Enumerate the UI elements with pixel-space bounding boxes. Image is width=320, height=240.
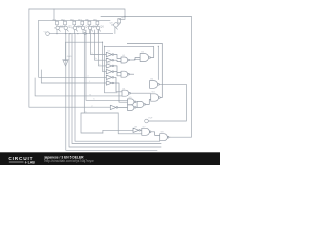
wire stub x54	[53, 9, 55, 20]
logo bolt icon	[25, 161, 27, 164]
wire feedback f5	[105, 46, 118, 93]
wire bus v0	[66, 34, 157, 151]
inverter U7	[110, 105, 116, 109]
wire p4 out	[146, 100, 151, 105]
wire q1q2 cross	[55, 25, 66, 34]
wire left fourth vertical	[41, 70, 106, 83]
wire p1 out	[131, 92, 151, 94]
wire gate1 to gate2	[134, 58, 140, 60]
nand gate G1	[121, 57, 128, 63]
transistor arrow ticks	[59, 28, 118, 32]
wire g6 out feedback	[105, 46, 154, 57]
wire left second vertical	[35, 78, 122, 96]
svg-text:Q4: Q4	[85, 25, 89, 29]
CircuitLab logo LAB row	[9, 162, 24, 163]
nand gate P1	[122, 90, 129, 96]
inverter U2	[106, 58, 112, 62]
resistor R4	[81, 21, 84, 25]
svg-text:R2: R2	[61, 18, 65, 22]
transistor Q1	[56, 26, 59, 29]
inverter U1	[106, 52, 112, 56]
svg-text:Q5: Q5	[92, 25, 96, 29]
resistor R7	[118, 19, 121, 23]
inverter U4	[106, 69, 112, 73]
inverter U5	[106, 75, 112, 79]
resistor R6	[96, 21, 99, 25]
wire collector rail	[39, 19, 110, 21]
wire input line	[49, 33, 112, 35]
component labels (tiny)	[44, 18, 165, 134]
svg-text:GND: GND	[67, 56, 72, 58]
nand gate B2	[151, 94, 159, 101]
wire feedback f2	[95, 30, 107, 60]
svg-text:R4: R4	[78, 18, 82, 22]
node OUT port	[145, 119, 149, 123]
svg-text:http://circuitlab.com/c/fys74k: http://circuitlab.com/c/fys74kj7rcyw	[45, 159, 95, 163]
nand gate A9 bottom	[142, 128, 150, 135]
transistor Q2	[64, 26, 67, 29]
nand gate G2	[121, 71, 128, 77]
wire q5q6 cross	[89, 25, 98, 34]
wire r7 top	[119, 17, 125, 20]
inverter U3	[106, 64, 112, 68]
nand gate P4	[137, 101, 144, 107]
transistor Q7	[114, 23, 118, 27]
inverter U6	[106, 81, 112, 85]
junction dots	[56, 16, 158, 47]
wire u8 to a9	[140, 129, 141, 131]
wire a9 to b10	[151, 132, 160, 136]
wire bus v4	[81, 34, 118, 133]
svg-text:R1: R1	[53, 18, 57, 22]
wire g2 out	[130, 73, 135, 75]
nand gate B10 bottom	[160, 134, 168, 141]
transistor Q4	[81, 26, 84, 29]
wire u5 u6 to gate	[114, 77, 128, 102]
resistor R5	[88, 21, 91, 25]
wire b10 out	[169, 136, 170, 138]
nand gate G6 big	[140, 54, 149, 62]
wire bus v1	[69, 34, 161, 147]
svg-text:Q6: Q6	[100, 25, 104, 29]
inverter U8	[133, 128, 139, 132]
wire u7 to p3	[118, 106, 137, 108]
wire emitter rail 2	[157, 46, 159, 79]
port IN	[46, 32, 50, 36]
wire left third vertical	[39, 20, 107, 77]
wire gate3 out loop	[148, 84, 186, 121]
resistor R3	[73, 21, 76, 25]
node open junction	[84, 32, 86, 34]
transistor Q3	[73, 26, 76, 29]
wire feedback f4	[103, 42, 107, 71]
svg-text:Q2: Q2	[68, 25, 72, 29]
svg-text:OUT: OUT	[148, 118, 153, 120]
wire bus v2	[72, 34, 161, 144]
wire top rail A	[29, 9, 125, 17]
svg-text:Q3: Q3	[77, 25, 81, 29]
svg-text:Q1: Q1	[60, 25, 64, 29]
nand gate B1	[150, 81, 158, 89]
resistor R1	[56, 21, 59, 25]
svg-text:R3: R3	[70, 18, 74, 22]
transistor Q5	[88, 26, 91, 29]
wire q3q4 cross	[72, 25, 83, 34]
wire u3 u4 to gate	[114, 66, 121, 76]
wire feedback f1	[91, 30, 107, 55]
wire feedback f3	[99, 30, 107, 66]
wire u1 u2 to gate	[114, 55, 121, 62]
resistor R2	[64, 21, 67, 25]
wire q7	[112, 23, 120, 34]
wire bottom tri feed	[103, 130, 133, 133]
wire g1 out	[130, 58, 141, 61]
wire p2 out	[136, 102, 137, 103]
svg-text:LAB: LAB	[28, 161, 36, 165]
nand gate P2	[128, 99, 134, 105]
svg-text:R6: R6	[93, 18, 97, 22]
ground	[63, 42, 69, 66]
footer bar	[0, 152, 220, 165]
wire feedback f6	[86, 30, 128, 100]
wire emitter rail 1	[66, 41, 103, 43]
transistor Q6	[96, 26, 99, 29]
wire top rail B	[101, 17, 192, 138]
nand gate P3	[128, 105, 134, 111]
wire b2 out feedback	[127, 43, 162, 97]
wire drop x118	[118, 113, 142, 134]
wire bus v3	[75, 34, 160, 142]
svg-text:R5: R5	[85, 18, 89, 22]
wire left border down	[29, 9, 110, 107]
